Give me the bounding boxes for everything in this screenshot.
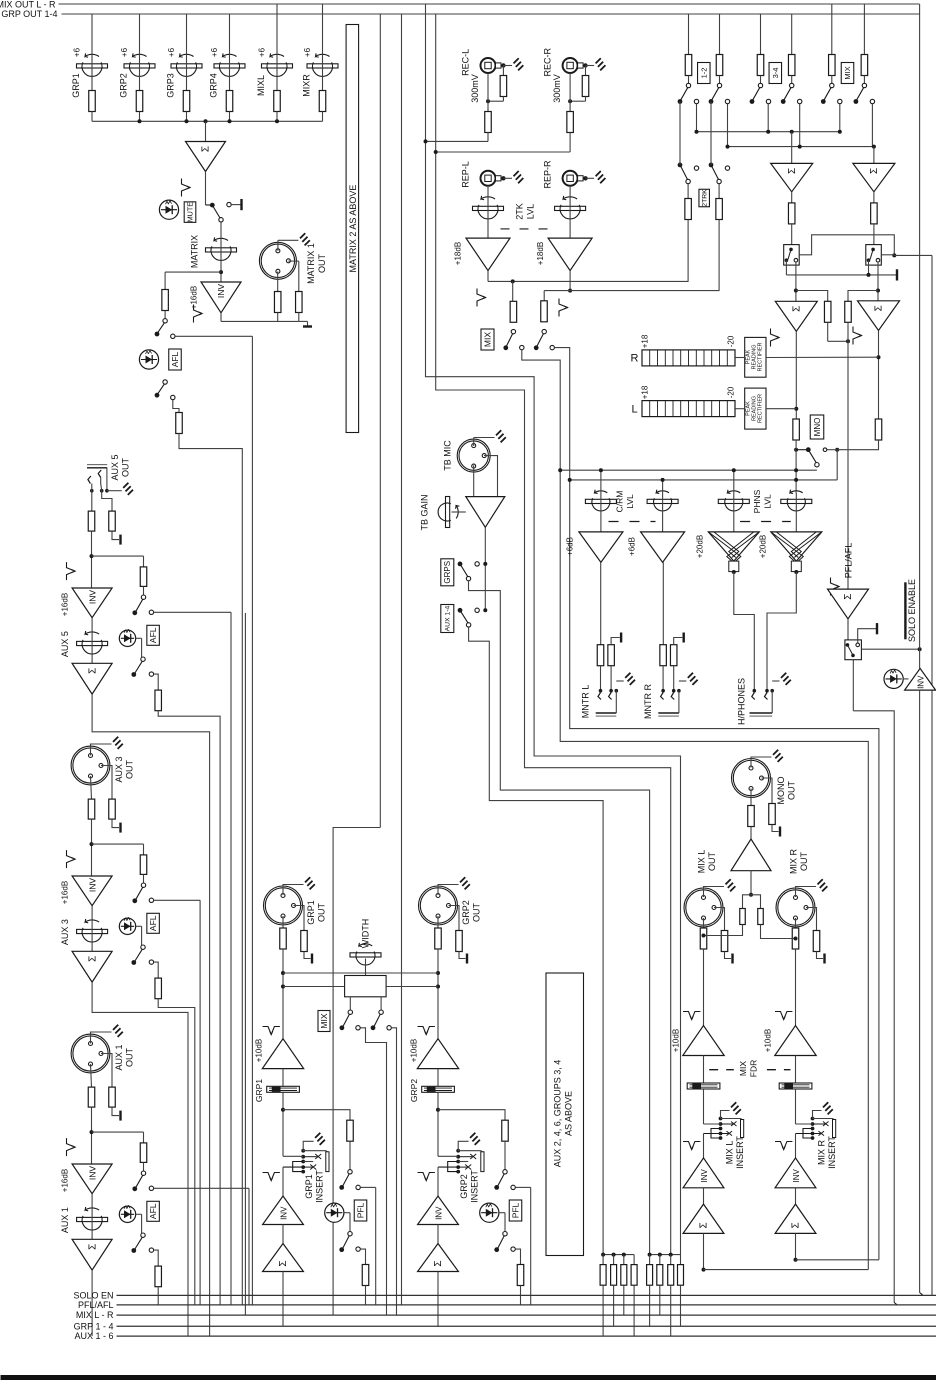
svg-text:SOLO ENABLE: SOLO ENABLE [907, 579, 917, 642]
svg-text:MIX: MIX [843, 66, 852, 79]
svg-text:+6dB: +6dB [628, 537, 637, 556]
svg-text:INSERT: INSERT [827, 1136, 837, 1169]
svg-text:AUX 2, 4, 6, GROUPS 3, 4: AUX 2, 4, 6, GROUPS 3, 4 [553, 1060, 563, 1168]
svg-text:INV: INV [792, 1169, 801, 1183]
svg-text:Σ: Σ [791, 1222, 802, 1228]
svg-text:TB GAIN: TB GAIN [420, 494, 430, 530]
svg-text:MIX: MIX [483, 332, 493, 347]
svg-text:+18dB: +18dB [454, 242, 463, 265]
svg-text:REC-L: REC-L [460, 49, 470, 76]
svg-text:H/PHONES: H/PHONES [737, 678, 747, 725]
svg-text:GRP2: GRP2 [409, 1079, 419, 1102]
svg-text:MATRIX 2 AS ABOVE: MATRIX 2 AS ABOVE [348, 185, 358, 273]
svg-text:+16dB: +16dB [61, 1169, 70, 1192]
svg-text:GRP2: GRP2 [461, 900, 471, 925]
svg-text:OUT: OUT [125, 1048, 135, 1068]
svg-text:300mV: 300mV [552, 74, 562, 103]
svg-text:+18: +18 [641, 334, 650, 348]
svg-text:300mV: 300mV [470, 74, 480, 103]
svg-text:LVL: LVL [526, 204, 536, 219]
svg-text:OUT: OUT [317, 903, 327, 923]
svg-text:MIX: MIX [319, 1013, 329, 1028]
svg-text:WIDTH: WIDTH [361, 919, 371, 949]
svg-text:AUX 3: AUX 3 [60, 919, 70, 945]
svg-text:Σ: Σ [278, 1260, 289, 1266]
svg-text:AFL: AFL [148, 1203, 158, 1219]
svg-text:MIX R: MIX R [789, 849, 799, 875]
svg-text:+18: +18 [641, 385, 650, 399]
svg-text:2TK: 2TK [515, 203, 525, 220]
svg-text:RECTIFIER: RECTIFIER [758, 394, 764, 423]
svg-text:OUT: OUT [125, 760, 135, 780]
svg-text:R: R [631, 353, 639, 365]
svg-text:+20dB: +20dB [696, 535, 705, 558]
svg-text:OUT: OUT [799, 852, 809, 872]
svg-text:MIX: MIX [738, 1061, 748, 1076]
svg-text:SOLO EN: SOLO EN [73, 1290, 113, 1300]
svg-text:INV: INV [917, 675, 926, 689]
svg-text:-20: -20 [727, 386, 736, 398]
svg-text:TB MIC: TB MIC [443, 440, 453, 471]
svg-text:GRP 1 - 4: GRP 1 - 4 [74, 1321, 114, 1331]
svg-text:RECTIFIER: RECTIFIER [758, 342, 764, 371]
svg-text:+6: +6 [167, 47, 176, 57]
svg-text:+6: +6 [258, 47, 267, 57]
svg-text:AS ABOVE: AS ABOVE [564, 1091, 574, 1136]
svg-text:MIX L: MIX L [697, 850, 707, 874]
svg-text:INV: INV [87, 590, 97, 605]
svg-text:MIXR: MIXR [302, 74, 312, 97]
svg-text:OUT: OUT [317, 254, 327, 274]
svg-text:MUTE: MUTE [186, 202, 195, 223]
svg-text:GRP2: GRP2 [459, 1174, 469, 1199]
svg-text:+10dB: +10dB [255, 1039, 264, 1062]
svg-text:MIXL: MIXL [256, 75, 266, 96]
svg-text:PFL/AFL: PFL/AFL [78, 1300, 114, 1310]
svg-text:INSERT: INSERT [315, 1170, 325, 1203]
svg-text:PFL/AFL: PFL/AFL [844, 543, 854, 579]
svg-text:AUX 1: AUX 1 [114, 1044, 124, 1070]
svg-text:Σ: Σ [87, 668, 98, 674]
svg-text:REP-L: REP-L [460, 161, 470, 188]
svg-text:Σ: Σ [787, 168, 798, 174]
svg-text:+16dB: +16dB [61, 593, 70, 616]
svg-text:INV: INV [87, 1166, 97, 1181]
svg-text:INV: INV [216, 284, 226, 299]
svg-text:PFL: PFL [511, 1202, 521, 1218]
svg-text:MIX R: MIX R [817, 1140, 827, 1166]
svg-text:Σ: Σ [792, 306, 803, 312]
svg-text:+6dB: +6dB [566, 537, 575, 556]
svg-text:GRP OUT 1-4: GRP OUT 1-4 [1, 9, 57, 19]
svg-text:Σ: Σ [874, 305, 885, 311]
svg-text:GRP1: GRP1 [304, 1174, 314, 1199]
svg-text:INSERT: INSERT [470, 1170, 480, 1203]
svg-text:OUT: OUT [472, 903, 482, 923]
svg-text:OUT: OUT [120, 458, 130, 478]
svg-text:MNTR R: MNTR R [643, 684, 653, 719]
svg-text:+16dB: +16dB [61, 881, 70, 904]
svg-text:AFL: AFL [148, 627, 158, 643]
svg-text:GRP1: GRP1 [306, 900, 316, 925]
svg-text:+10dB: +10dB [764, 1029, 773, 1052]
svg-text:-20: -20 [727, 335, 736, 347]
svg-text:MIX L - R: MIX L - R [76, 1310, 114, 1320]
svg-text:3-4: 3-4 [771, 68, 780, 79]
svg-text:MONO: MONO [776, 777, 786, 805]
svg-text:PFL: PFL [356, 1202, 366, 1218]
svg-text:MATRIX: MATRIX [190, 235, 200, 268]
svg-text:Σ: Σ [433, 1260, 444, 1266]
svg-text:AUX 1 - 6: AUX 1 - 6 [74, 1331, 113, 1341]
svg-text:INV: INV [435, 1206, 444, 1220]
svg-text:AUX 1: AUX 1 [60, 1207, 70, 1233]
svg-text:PHNS: PHNS [752, 489, 762, 513]
svg-text:MNO: MNO [813, 418, 822, 437]
svg-text:C/RM: C/RM [615, 491, 625, 513]
svg-text:LVL: LVL [763, 494, 773, 509]
svg-text:Σ: Σ [869, 168, 880, 174]
svg-text:AUX 3: AUX 3 [114, 756, 124, 782]
svg-text:Σ: Σ [843, 594, 854, 600]
svg-text:OUT: OUT [787, 781, 797, 801]
svg-text:INSERT: INSERT [735, 1136, 745, 1169]
svg-text:GRP3: GRP3 [166, 73, 176, 98]
svg-text:+10dB: +10dB [672, 1029, 681, 1052]
svg-text:OUT: OUT [707, 852, 717, 872]
svg-text:REP-R: REP-R [542, 160, 552, 189]
svg-text:+20dB: +20dB [759, 535, 768, 558]
svg-text:+6: +6 [120, 47, 129, 57]
svg-text:GRPS: GRPS [443, 561, 452, 584]
svg-text:+6: +6 [73, 47, 82, 57]
svg-text:2TRK: 2TRK [702, 189, 709, 207]
svg-text:INV: INV [280, 1206, 289, 1220]
svg-text:INV: INV [700, 1169, 709, 1183]
svg-text:FDR: FDR [749, 1060, 759, 1077]
svg-text:MNTR L: MNTR L [581, 685, 591, 719]
svg-text:L: L [631, 404, 637, 416]
svg-text:AUX 1-4: AUX 1-4 [445, 605, 452, 631]
svg-text:GRP1: GRP1 [71, 73, 81, 98]
svg-text:MATRIX 1: MATRIX 1 [306, 243, 316, 284]
svg-text:GRP4: GRP4 [209, 73, 219, 98]
svg-text:+6: +6 [210, 47, 219, 57]
svg-text:AFL: AFL [148, 915, 158, 931]
svg-text:Σ: Σ [201, 146, 212, 152]
svg-text:1-2: 1-2 [700, 68, 709, 79]
svg-text:AFL: AFL [170, 351, 180, 367]
svg-text:INV: INV [87, 878, 97, 893]
svg-text:Σ: Σ [699, 1222, 710, 1228]
svg-text:GRP2: GRP2 [119, 73, 129, 98]
svg-text:+6: +6 [303, 47, 312, 57]
svg-text:Σ: Σ [87, 956, 98, 962]
svg-text:Σ: Σ [87, 1244, 98, 1250]
svg-text:LVL: LVL [625, 494, 635, 509]
svg-text:GRP1: GRP1 [254, 1079, 264, 1102]
svg-text:REC-R: REC-R [542, 48, 552, 77]
svg-text:AUX 5: AUX 5 [110, 454, 120, 480]
svg-text:AUX 5: AUX 5 [60, 631, 70, 657]
svg-text:+10dB: +10dB [410, 1039, 419, 1062]
svg-text:+18dB: +18dB [536, 242, 545, 265]
svg-text:MIX L: MIX L [725, 1141, 735, 1165]
